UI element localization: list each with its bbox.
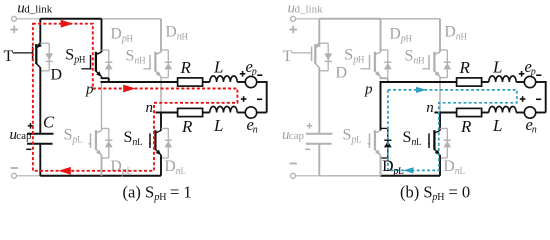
wire L-e_n bbox=[237, 112, 245, 114]
wire bottom rail bbox=[40, 175, 161, 177]
label C bbox=[43, 113, 55, 132]
label L (bottom) bbox=[492, 116, 502, 135]
source e_p bbox=[524, 76, 535, 87]
wire n to load bbox=[434, 112, 456, 114]
caption bbox=[123, 182, 192, 203]
label R (top) bbox=[180, 58, 192, 77]
svg-text:D: D bbox=[390, 25, 401, 42]
svg-text:d_link: d_link bbox=[295, 4, 324, 16]
wire p to load bbox=[101, 81, 178, 83]
svg-text:n: n bbox=[426, 100, 434, 116]
label L (bottom) bbox=[213, 116, 223, 135]
svg-text:D: D bbox=[51, 67, 63, 84]
svg-text:R: R bbox=[181, 117, 193, 136]
label T bbox=[4, 48, 14, 65]
svg-text:D: D bbox=[166, 23, 177, 40]
- of e_n bbox=[257, 98, 262, 100]
IGBT S_nL with diode D_nL bbox=[149, 113, 172, 176]
wire right rail bbox=[545, 81, 547, 113]
wire bottom rail bbox=[319, 175, 440, 177]
label u_cap bbox=[10, 127, 33, 143]
svg-text:S: S bbox=[64, 127, 73, 144]
label R (top) bbox=[459, 58, 471, 77]
svg-text:n: n bbox=[532, 125, 537, 136]
svg-text:(b) S: (b) S bbox=[400, 182, 433, 201]
label D_nH bbox=[166, 23, 189, 42]
label R (bottom) bbox=[460, 117, 472, 136]
label S_pH bbox=[344, 47, 365, 66]
label S_pH bbox=[65, 47, 86, 66]
- of dc-link terminal bbox=[11, 167, 18, 169]
svg-text:D: D bbox=[336, 65, 348, 82]
svg-text:d_link: d_link bbox=[24, 4, 53, 16]
red dashed current loop (S_pH = 1) bbox=[33, 20, 238, 175]
svg-text:H: H bbox=[79, 55, 86, 65]
wire L-e_n bbox=[516, 112, 524, 114]
svg-text:= 0: = 0 bbox=[449, 182, 471, 201]
+ of e_n bbox=[241, 96, 247, 102]
source e_n bbox=[245, 107, 256, 118]
svg-text:D: D bbox=[111, 158, 122, 175]
node: dc-link + terminal bbox=[12, 16, 41, 21]
svg-text:S: S bbox=[405, 48, 414, 65]
label S_pL bbox=[343, 127, 362, 146]
inductor L (bottom) bbox=[210, 106, 237, 112]
- of capacitor bbox=[26, 148, 31, 150]
svg-text:H: H bbox=[461, 31, 468, 41]
label S_nH bbox=[405, 48, 426, 67]
svg-text:S: S bbox=[343, 127, 352, 144]
node: dc-link + terminal bbox=[291, 16, 320, 21]
resistor R (top) bbox=[178, 78, 203, 86]
label D_pH bbox=[111, 25, 134, 44]
label D_nL bbox=[444, 158, 466, 177]
label u_cap bbox=[282, 127, 305, 143]
svg-text:S: S bbox=[403, 129, 412, 146]
node n bbox=[426, 100, 434, 116]
label S_nL bbox=[403, 129, 422, 148]
- of e_n bbox=[536, 98, 541, 100]
wire e_p to right rail bbox=[536, 81, 546, 83]
svg-text:R: R bbox=[460, 117, 472, 136]
- of e_p bbox=[536, 74, 541, 76]
svg-text:L: L bbox=[398, 166, 404, 176]
svg-text:T: T bbox=[283, 48, 293, 65]
svg-text:H: H bbox=[418, 56, 425, 66]
label e_p bbox=[525, 57, 536, 78]
+ of e_n bbox=[520, 96, 526, 102]
svg-text:S: S bbox=[124, 129, 133, 146]
IGBT S_pH with diode D_pH bbox=[81, 19, 112, 82]
wire R-L bottom bbox=[482, 112, 489, 114]
svg-text:cap: cap bbox=[16, 130, 32, 142]
node: dc-link - terminal bbox=[291, 173, 320, 178]
label D_pH bbox=[390, 25, 413, 44]
svg-text:H: H bbox=[406, 33, 413, 43]
label S_pL bbox=[64, 127, 83, 146]
label T bbox=[283, 48, 293, 65]
+ of e_p bbox=[519, 71, 525, 77]
svg-text:H: H bbox=[139, 56, 146, 66]
svg-text:cap: cap bbox=[289, 130, 305, 142]
svg-text:D: D bbox=[444, 158, 455, 175]
svg-text:L: L bbox=[356, 135, 362, 145]
svg-text:S: S bbox=[65, 47, 74, 64]
wire n to load bbox=[155, 112, 177, 114]
svg-text:L: L bbox=[181, 166, 187, 176]
wire L-e_p bbox=[237, 81, 245, 83]
label D bbox=[336, 65, 348, 82]
label D_pL bbox=[382, 158, 404, 177]
svg-text:L: L bbox=[492, 57, 502, 76]
svg-text:H: H bbox=[437, 192, 444, 203]
IGBT S_nH with diode D_nH bbox=[143, 19, 172, 113]
+ of dc-link terminal bbox=[289, 26, 297, 34]
wire right rail bbox=[266, 81, 268, 113]
wire L-e_p bbox=[516, 81, 524, 83]
source e_n bbox=[524, 107, 535, 118]
svg-text:L: L bbox=[213, 116, 223, 135]
label D_nH bbox=[445, 23, 468, 42]
label u_d_link bbox=[17, 1, 53, 17]
label R (bottom) bbox=[181, 117, 193, 136]
label D_pL (over loop) bbox=[382, 158, 404, 177]
svg-text:R: R bbox=[459, 58, 471, 77]
label D bbox=[51, 67, 63, 84]
svg-text:p: p bbox=[530, 67, 536, 78]
node p bbox=[364, 82, 373, 98]
svg-text:D: D bbox=[165, 158, 176, 175]
IGBT S_nH with diode D_nH bbox=[422, 19, 451, 113]
wire e_n to right rail bbox=[536, 112, 546, 114]
resistor R (bottom) bbox=[457, 108, 482, 116]
wire R-L top bbox=[482, 81, 489, 83]
transistor T bbox=[292, 19, 321, 68]
wire R-L bottom bbox=[203, 112, 210, 114]
svg-text:n: n bbox=[253, 125, 258, 136]
- of capacitor bbox=[305, 148, 310, 150]
svg-text:D: D bbox=[445, 23, 456, 40]
svg-text:D: D bbox=[111, 25, 122, 42]
svg-text:H: H bbox=[182, 31, 189, 41]
caption bbox=[400, 182, 470, 203]
inductor L (bottom) bbox=[489, 106, 516, 112]
inductor L (top) bbox=[489, 76, 516, 82]
svg-text:T: T bbox=[4, 48, 14, 65]
svg-text:L: L bbox=[492, 116, 502, 135]
svg-text:R: R bbox=[180, 58, 192, 77]
label e_n bbox=[247, 115, 258, 136]
node p bbox=[85, 82, 94, 98]
- of dc-link terminal bbox=[290, 163, 297, 165]
label L (top) bbox=[213, 57, 223, 76]
label D_nL bbox=[165, 158, 187, 177]
IGBT S_nL with diode D_nL bbox=[428, 113, 451, 176]
resistor R (bottom) bbox=[178, 108, 203, 116]
svg-text:C: C bbox=[43, 113, 55, 132]
capacitor C bbox=[27, 67, 54, 176]
wire e_n to right rail bbox=[257, 112, 267, 114]
svg-text:(a) S: (a) S bbox=[123, 182, 155, 201]
svg-text:n: n bbox=[146, 100, 154, 116]
svg-text:L: L bbox=[137, 137, 143, 147]
IGBT S_pH with diode D_pH bbox=[360, 19, 391, 82]
wire R-L top bbox=[203, 81, 210, 83]
+ of dc-link terminal bbox=[10, 26, 18, 34]
+ of capacitor bbox=[28, 123, 34, 129]
svg-text:D: D bbox=[382, 158, 393, 175]
svg-text:S: S bbox=[126, 48, 135, 65]
svg-text:H: H bbox=[159, 192, 166, 203]
IGBT S_pL with diode D_pL bbox=[368, 82, 392, 176]
label u_d_link bbox=[288, 1, 324, 17]
wire top rail bbox=[319, 18, 440, 20]
svg-text:= 1: = 1 bbox=[170, 182, 192, 201]
label D_pL bbox=[111, 158, 133, 177]
IGBT S_pL with diode D_pL bbox=[89, 82, 113, 176]
label e_n bbox=[526, 115, 537, 136]
node: dc-link - terminal bbox=[12, 173, 41, 178]
diode D (antiparallel of T) bbox=[319, 43, 332, 71]
wire e_p to right rail bbox=[257, 81, 267, 83]
svg-text:L: L bbox=[77, 135, 83, 145]
+ of e_p bbox=[240, 71, 246, 77]
svg-text:H: H bbox=[358, 55, 365, 65]
resistor R (top) bbox=[457, 78, 482, 86]
transistor T bbox=[13, 19, 42, 68]
- of e_p bbox=[257, 74, 262, 76]
capacitor C bbox=[306, 67, 333, 176]
svg-text:S: S bbox=[344, 47, 353, 64]
+ of capacitor bbox=[307, 123, 313, 129]
diode D (antiparallel of T) bbox=[40, 43, 53, 71]
svg-text:p: p bbox=[251, 67, 257, 78]
svg-text:L: L bbox=[460, 166, 466, 176]
label S_nL bbox=[124, 129, 143, 148]
svg-text:p: p bbox=[364, 82, 373, 98]
wire p to load bbox=[380, 81, 457, 83]
wire top rail bbox=[40, 18, 161, 20]
svg-text:L: L bbox=[416, 137, 422, 147]
node n bbox=[146, 100, 154, 116]
source e_p bbox=[245, 76, 256, 87]
label L (top) bbox=[492, 57, 502, 76]
label e_p bbox=[246, 57, 257, 78]
inductor L (top) bbox=[210, 76, 237, 82]
svg-text:H: H bbox=[127, 33, 134, 43]
teal dashed current loop (S_pH = 0) bbox=[388, 87, 517, 174]
svg-text:L: L bbox=[213, 57, 223, 76]
label S_nH bbox=[126, 48, 147, 67]
